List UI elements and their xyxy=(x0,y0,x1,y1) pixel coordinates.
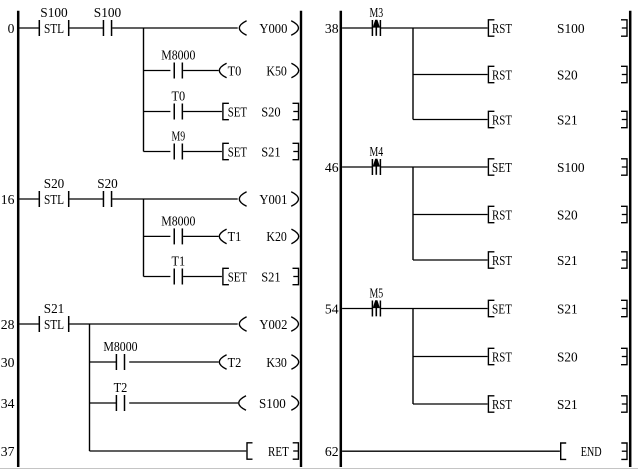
instruction open bracket xyxy=(488,206,494,222)
coil left paren xyxy=(239,317,246,332)
svg-text:S21: S21 xyxy=(44,301,65,316)
svg-text:RST: RST xyxy=(492,397,513,412)
svg-text:STL: STL xyxy=(44,21,64,36)
instruction close bracket xyxy=(621,396,627,412)
svg-text:16: 16 xyxy=(1,192,15,207)
NO contact T1 xyxy=(173,269,175,285)
coil left paren xyxy=(239,192,246,207)
wire branch to instruction xyxy=(413,119,488,121)
instruction open bracket xyxy=(488,66,494,82)
wire contact M8000 to timer coil T0 xyxy=(183,70,219,72)
wire branch to contact M8000 xyxy=(144,70,171,72)
NO contact T2 xyxy=(115,395,117,411)
svg-text:S21: S21 xyxy=(261,269,280,284)
left power rail (left ladder column) xyxy=(17,11,20,467)
svg-text:S100: S100 xyxy=(40,5,68,20)
left power rail (right ladder column) xyxy=(340,11,343,467)
timer coil right paren xyxy=(291,355,298,370)
svg-text:Y001: Y001 xyxy=(259,192,287,207)
coil left paren xyxy=(239,21,246,36)
instruction open bracket xyxy=(223,143,229,159)
coil right paren xyxy=(291,192,298,207)
svg-text:S21: S21 xyxy=(557,397,578,412)
branch junction down from rung 0 xyxy=(143,28,145,152)
NO contact S100 xyxy=(102,20,104,36)
svg-text:RST: RST xyxy=(492,349,513,364)
instruction close bracket xyxy=(293,268,299,284)
svg-text:S21: S21 xyxy=(557,253,578,268)
rising-pulse contact M3 xyxy=(371,20,373,36)
wire branch to contact T2 xyxy=(90,402,117,404)
instruction open bracket xyxy=(488,348,494,364)
coil left paren xyxy=(239,396,246,411)
wire branch to contact T1 xyxy=(144,276,171,278)
svg-text:Y000: Y000 xyxy=(259,21,287,36)
svg-text:M3: M3 xyxy=(369,5,383,20)
wire branch to instruction xyxy=(413,214,488,216)
wire STL to contact S100 xyxy=(69,27,103,29)
coil right paren xyxy=(291,396,298,411)
instruction open bracket xyxy=(488,396,494,412)
svg-text:S20: S20 xyxy=(557,207,578,222)
svg-text:M4: M4 xyxy=(369,144,383,159)
svg-text:RST: RST xyxy=(492,253,513,268)
wire STL to coil Y002 xyxy=(69,323,237,325)
svg-text:T1: T1 xyxy=(228,229,242,244)
instruction close bracket xyxy=(621,252,627,268)
instruction close bracket xyxy=(293,143,299,159)
RET close bracket xyxy=(293,443,299,459)
svg-text:RST: RST xyxy=(492,112,513,127)
svg-text:RST: RST xyxy=(492,21,513,36)
svg-text:S20: S20 xyxy=(557,67,578,82)
wire branch to instruction xyxy=(413,74,488,76)
svg-text:SET: SET xyxy=(228,144,248,159)
svg-text:37: 37 xyxy=(1,444,15,459)
svg-text:S21: S21 xyxy=(557,112,578,127)
svg-text:30: 30 xyxy=(1,355,15,370)
svg-text:S21: S21 xyxy=(261,144,280,159)
svg-text:S100: S100 xyxy=(259,396,286,411)
svg-text:STL: STL xyxy=(44,317,64,332)
svg-text:T0: T0 xyxy=(171,89,185,104)
coil right paren xyxy=(291,317,298,332)
wire branch to instruction xyxy=(413,403,488,405)
svg-text:SET: SET xyxy=(492,160,513,175)
wire branch to RET instruction xyxy=(90,450,247,452)
wire pulse contact to instruction xyxy=(380,308,487,310)
rising-pulse contact M4 xyxy=(371,159,373,175)
svg-text:38: 38 xyxy=(325,21,339,36)
instruction open bracket xyxy=(488,111,494,127)
END close bracket xyxy=(621,443,627,459)
svg-text:46: 46 xyxy=(325,160,339,175)
svg-text:S100: S100 xyxy=(557,21,585,36)
instruction open bracket xyxy=(488,300,494,316)
wire contact M8000 to timer coil T2 xyxy=(129,361,218,363)
wire pulse contact to instruction xyxy=(380,27,487,29)
wire pulse contact to instruction xyxy=(380,166,487,168)
NO contact M8000 xyxy=(173,228,175,244)
svg-text:T1: T1 xyxy=(171,254,185,269)
svg-text:RST: RST xyxy=(492,207,513,222)
svg-text:RST: RST xyxy=(492,67,513,82)
svg-text:54: 54 xyxy=(325,301,339,316)
wire branch to contact T0 xyxy=(144,111,171,113)
instruction close bracket xyxy=(621,206,627,222)
coil right paren xyxy=(291,21,298,36)
svg-text:M8000: M8000 xyxy=(161,48,195,63)
branch junction down from rung 54 xyxy=(412,309,414,405)
wire contact M9 to SET instruction xyxy=(183,151,222,153)
NO contact T0 xyxy=(173,104,175,120)
svg-text:Y002: Y002 xyxy=(259,317,287,332)
instruction open bracket xyxy=(223,103,229,119)
wire contact S100 to coil Y000 xyxy=(112,27,238,29)
branch junction down from rung 38 xyxy=(412,28,414,120)
instruction open bracket xyxy=(488,20,494,36)
wire rail to STL contact xyxy=(19,198,38,200)
svg-text:M5: M5 xyxy=(369,286,383,301)
wire rail to END instruction xyxy=(342,450,560,452)
svg-text:K50: K50 xyxy=(266,63,287,78)
instruction close bracket xyxy=(293,103,299,119)
svg-text:STL: STL xyxy=(44,192,64,207)
svg-text:T2: T2 xyxy=(228,355,242,370)
svg-text:S20: S20 xyxy=(44,176,65,191)
wire contact T1 to SET instruction xyxy=(183,276,222,278)
wire contact T0 to SET instruction xyxy=(183,111,222,113)
wire contact M8000 to timer coil T1 xyxy=(183,235,219,237)
svg-text:S100: S100 xyxy=(94,5,122,20)
svg-text:SET: SET xyxy=(492,301,513,316)
wire branch to contact M8000 xyxy=(90,361,117,363)
NO contact S20 xyxy=(102,191,104,207)
svg-text:SET: SET xyxy=(228,104,248,119)
instruction close bracket xyxy=(621,159,627,175)
NO contact M8000 xyxy=(173,63,175,79)
instruction close bracket xyxy=(621,348,627,364)
instruction close bracket xyxy=(621,111,627,127)
NO contact M8000 xyxy=(115,354,117,370)
instruction close bracket xyxy=(621,66,627,82)
instruction open bracket xyxy=(223,268,229,284)
instruction open bracket xyxy=(488,252,494,268)
NO contact M9 xyxy=(173,144,175,160)
svg-text:SET: SET xyxy=(228,269,248,284)
timer coil right paren xyxy=(291,63,298,78)
wire branch to instruction xyxy=(413,356,488,358)
wire STL to contact S20 xyxy=(69,198,103,200)
instruction close bracket xyxy=(621,20,627,36)
right power rail (right ladder column) xyxy=(629,11,632,467)
right power rail (left ladder column) xyxy=(300,11,302,467)
svg-text:62: 62 xyxy=(325,444,339,459)
wire rail to pulse contact M4 xyxy=(342,166,372,168)
svg-text:0: 0 xyxy=(8,21,15,36)
wire branch to contact M9 xyxy=(144,151,171,153)
svg-text:K30: K30 xyxy=(266,355,287,370)
svg-text:T2: T2 xyxy=(114,380,128,395)
svg-text:RET: RET xyxy=(268,444,289,459)
instruction open bracket xyxy=(488,159,494,175)
svg-text:S20: S20 xyxy=(97,176,118,191)
wire rail to pulse contact M3 xyxy=(342,27,372,29)
rising-pulse contact M5 xyxy=(371,301,373,317)
timer coil right paren xyxy=(291,229,298,244)
svg-text:S100: S100 xyxy=(557,160,585,175)
wire rail to pulse contact M5 xyxy=(342,308,372,310)
svg-text:END: END xyxy=(581,444,602,459)
wire branch to contact M8000 xyxy=(144,235,171,237)
wire rail to STL contact xyxy=(19,323,38,325)
svg-text:S21: S21 xyxy=(557,301,578,316)
bottom separator line xyxy=(0,468,638,470)
STL contact S100 xyxy=(38,20,40,36)
svg-text:K20: K20 xyxy=(266,229,287,244)
wire branch to instruction xyxy=(413,259,488,261)
wire contact T2 to coil S100 xyxy=(129,402,238,404)
svg-text:M9: M9 xyxy=(171,129,185,144)
branch junction down from rung 46 xyxy=(412,167,414,260)
svg-text:S20: S20 xyxy=(261,104,281,119)
svg-text:28: 28 xyxy=(1,317,15,332)
wire rail to STL contact xyxy=(19,27,38,29)
timer coil left paren xyxy=(219,229,226,244)
svg-text:T0: T0 xyxy=(228,63,242,78)
branch junction down from rung 28 xyxy=(89,324,91,451)
branch junction down from rung 16 xyxy=(143,199,145,277)
svg-text:34: 34 xyxy=(1,396,15,411)
STL contact S21 xyxy=(38,316,40,332)
svg-text:S20: S20 xyxy=(557,349,578,364)
timer coil left paren xyxy=(219,355,226,370)
wire contact S20 to coil Y001 xyxy=(112,198,238,200)
svg-text:M8000: M8000 xyxy=(103,339,137,354)
STL contact S20 xyxy=(38,191,40,207)
instruction close bracket xyxy=(621,300,627,316)
END open bracket xyxy=(561,443,567,459)
svg-text:M8000: M8000 xyxy=(161,214,195,229)
RET open bracket xyxy=(247,443,253,459)
timer coil left paren xyxy=(219,63,226,78)
